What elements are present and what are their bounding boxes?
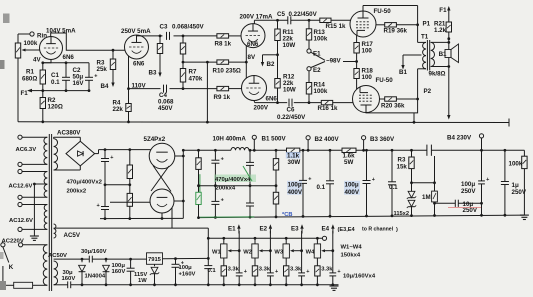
svg-text:4V: 4V (33, 57, 41, 64)
svg-text:FU-50: FU-50 (374, 8, 392, 15)
svg-text:AC50V: AC50V (48, 253, 67, 259)
svg-text:10H 400mA: 10H 400mA (213, 136, 247, 143)
svg-text:W1: W1 (212, 250, 221, 256)
svg-text:(E3,E4: (E3,E4 (338, 227, 356, 233)
svg-text:R19 36k: R19 36k (384, 28, 408, 35)
svg-text:+: + (306, 269, 309, 275)
svg-text:100μ: 100μ (345, 182, 359, 189)
svg-text:+: + (372, 177, 375, 183)
svg-text:B3: B3 (149, 70, 157, 77)
svg-text:6N6: 6N6 (247, 41, 259, 48)
svg-text:+: + (94, 74, 97, 80)
svg-text:R7: R7 (189, 69, 197, 76)
svg-text:E3: E3 (291, 226, 299, 233)
svg-text:+: + (275, 269, 278, 275)
svg-text:200kx2: 200kx2 (67, 188, 87, 194)
svg-text:0.22/450V: 0.22/450V (277, 114, 306, 121)
svg-text:400V: 400V (288, 189, 303, 196)
svg-text:+160V: +160V (179, 271, 196, 277)
svg-text:R20 36k: R20 36k (381, 103, 405, 110)
svg-text:7915: 7915 (148, 257, 162, 263)
svg-text:B1: B1 (439, 51, 447, 58)
svg-text:B1 500V: B1 500V (262, 136, 287, 143)
svg-text:B4 230V: B4 230V (447, 135, 472, 142)
svg-text:30W: 30W (288, 159, 301, 166)
svg-text:P1: P1 (423, 21, 431, 28)
svg-text:8V: 8V (248, 54, 256, 61)
svg-text:470μ/400Vx2: 470μ/400Vx2 (67, 180, 103, 186)
svg-text:0.1: 0.1 (51, 79, 60, 86)
svg-text:R10 235Ω: R10 235Ω (213, 68, 241, 75)
svg-text:160V: 160V (62, 276, 76, 282)
svg-text:100μ: 100μ (288, 182, 302, 189)
svg-text:T1: T1 (421, 34, 429, 41)
svg-text:AC12.6V: AC12.6V (9, 184, 33, 190)
svg-text:16V: 16V (73, 80, 85, 87)
svg-text:W3: W3 (274, 250, 283, 256)
svg-text:100μ: 100μ (179, 265, 193, 271)
svg-text:3.3k: 3.3k (228, 266, 240, 272)
svg-text:1W: 1W (138, 278, 147, 284)
svg-text:0.1: 0.1 (317, 184, 326, 191)
svg-text:+: + (244, 269, 247, 275)
svg-text:5Z4Px2: 5Z4Px2 (144, 136, 166, 143)
svg-text:R8 1k: R8 1k (215, 41, 232, 48)
svg-text:160V: 160V (112, 269, 126, 275)
svg-text:−98V: −98V (326, 57, 341, 64)
svg-text:5W: 5W (344, 159, 353, 166)
svg-text:FU-50: FU-50 (376, 77, 394, 84)
svg-text:200kx4: 200kx4 (216, 185, 236, 191)
svg-text:9k/8Ω: 9k/8Ω (429, 71, 446, 78)
svg-text:K: K (9, 264, 14, 271)
svg-text:470μ/400Vx4: 470μ/400Vx4 (215, 177, 251, 183)
svg-text:1M: 1M (422, 194, 431, 201)
svg-text:0.1: 0.1 (208, 268, 217, 274)
svg-text:15k: 15k (397, 164, 408, 171)
svg-text:200V 17mA: 200V 17mA (240, 13, 274, 20)
svg-text:200V: 200V (254, 105, 269, 112)
svg-text:+: + (110, 155, 113, 161)
svg-text:+: + (486, 177, 489, 183)
svg-text:100k: 100k (314, 36, 328, 43)
svg-text:6N6: 6N6 (63, 54, 75, 61)
svg-text:E1: E1 (228, 226, 236, 233)
svg-text:3.3k: 3.3k (259, 266, 271, 272)
svg-text:B2 400V: B2 400V (315, 136, 340, 143)
svg-text:to R channel: to R channel (362, 227, 394, 233)
svg-text:+: + (97, 203, 100, 209)
svg-text:100k: 100k (509, 161, 523, 168)
svg-text:100: 100 (362, 48, 373, 55)
svg-text:+: + (221, 157, 224, 163)
svg-text:E4: E4 (322, 226, 330, 233)
svg-text:AC12.6V: AC12.6V (9, 218, 33, 224)
svg-text:C6: C6 (287, 107, 295, 114)
svg-text:+: + (337, 269, 340, 275)
svg-text:B3 360V: B3 360V (370, 136, 395, 143)
svg-text:400V: 400V (345, 189, 360, 196)
svg-text:100: 100 (362, 74, 373, 81)
svg-text:AC6.3V: AC6.3V (16, 147, 37, 153)
svg-text:1N4004: 1N4004 (85, 274, 106, 280)
svg-text:C3: C3 (160, 24, 168, 31)
svg-text:0.068/450V: 0.068/450V (172, 24, 205, 31)
svg-text:W4: W4 (306, 250, 315, 256)
svg-text:W1~W4: W1~W4 (341, 245, 363, 251)
svg-text:680Ω: 680Ω (22, 76, 37, 83)
svg-text:3.3k: 3.3k (321, 266, 333, 272)
svg-text:6N6: 6N6 (266, 96, 278, 103)
svg-text:B4: B4 (101, 83, 109, 90)
svg-text:25k: 25k (97, 66, 108, 73)
svg-text:R1: R1 (26, 69, 34, 76)
svg-text:B1: B1 (399, 69, 407, 76)
svg-text:R9 1k: R9 1k (214, 94, 231, 101)
svg-text:R15 1k: R15 1k (326, 23, 347, 30)
svg-text:AC5V: AC5V (64, 232, 81, 239)
svg-text:250V: 250V (461, 188, 476, 195)
svg-text:30μ/160V: 30μ/160V (81, 249, 107, 255)
svg-text:10W: 10W (283, 87, 296, 94)
svg-text:W2: W2 (243, 250, 252, 256)
svg-text:22k: 22k (113, 106, 124, 113)
svg-text:+: + (308, 177, 311, 183)
svg-text:0.1: 0.1 (389, 184, 398, 191)
svg-text:250V 5mA: 250V 5mA (121, 28, 151, 35)
svg-text:100k: 100k (314, 88, 328, 95)
svg-text:B2: B2 (267, 61, 275, 68)
svg-text:6N6: 6N6 (133, 61, 145, 68)
svg-text:P2: P2 (424, 88, 432, 95)
svg-text:120Ω: 120Ω (48, 104, 63, 111)
svg-text:F1: F1 (21, 90, 29, 97)
svg-text:*CB: *CB (282, 212, 292, 218)
svg-text:F1: F1 (439, 7, 447, 14)
svg-text:+: + (221, 198, 224, 204)
svg-text:E2: E2 (313, 67, 321, 74)
svg-text:150kx4: 150kx4 (341, 253, 361, 259)
svg-text:AC380V: AC380V (57, 130, 81, 137)
svg-text:10W: 10W (283, 42, 296, 49)
svg-text:1.2k: 1.2k (434, 27, 447, 34)
svg-text:0.22/450V: 0.22/450V (289, 11, 318, 18)
svg-text:450V: 450V (158, 105, 173, 112)
svg-text:3.3k: 3.3k (290, 266, 302, 272)
svg-text:100k: 100k (24, 40, 38, 47)
svg-text:470k: 470k (189, 76, 203, 83)
svg-text:10μ/160Vx4: 10μ/160Vx4 (343, 274, 376, 280)
svg-text:C5: C5 (277, 11, 285, 18)
svg-text:): ) (396, 227, 398, 233)
svg-text:E2: E2 (260, 226, 268, 233)
svg-text:C1: C1 (51, 72, 59, 79)
svg-text:R3: R3 (398, 157, 406, 164)
svg-text:1μ: 1μ (512, 182, 519, 189)
svg-text:R16 1k: R16 1k (318, 105, 339, 112)
